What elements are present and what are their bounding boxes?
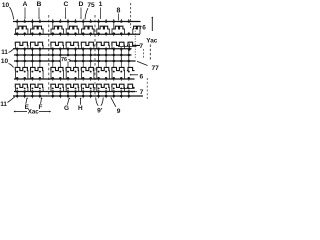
label A bbox=[23, 1, 28, 19]
label 9 bbox=[111, 97, 121, 115]
svg-text:7: 7 bbox=[140, 89, 144, 96]
dashed continuation right of 7 bbox=[143, 49, 145, 58]
core winding row 1 bbox=[15, 22, 140, 29]
svg-text:11: 11 bbox=[0, 101, 7, 108]
dashed continuation column 2 bbox=[94, 15, 96, 96]
svg-text:Yac: Yac bbox=[146, 38, 157, 45]
label 8 bbox=[117, 8, 121, 21]
label H bbox=[78, 98, 83, 113]
label 11 left bbox=[1, 49, 13, 56]
svg-text:7: 7 bbox=[139, 43, 143, 50]
svg-text:H: H bbox=[78, 105, 83, 112]
wire winding return line row 3 bbox=[14, 77, 135, 81]
wire bus line 11 bbox=[13, 47, 132, 50]
svg-text:F: F bbox=[38, 104, 42, 111]
label F bbox=[38, 97, 42, 111]
label Yac with span arrow bbox=[146, 17, 157, 61]
svg-text:11: 11 bbox=[1, 49, 8, 56]
core winding row 3 bbox=[15, 62, 135, 73]
core winding row 4 bbox=[15, 84, 135, 91]
wire right stub line bbox=[120, 87, 135, 89]
label 6 under bus1 end bbox=[140, 25, 147, 32]
svg-text:A: A bbox=[23, 1, 28, 8]
label 7 right bbox=[118, 43, 143, 50]
label 6 right bbox=[130, 73, 144, 80]
label Xac with span arrows bbox=[14, 109, 51, 116]
label 7 bottom-right bbox=[131, 89, 144, 96]
svg-text:76: 76 bbox=[61, 57, 67, 63]
svg-text:9': 9' bbox=[97, 107, 103, 114]
label 1 bbox=[99, 1, 103, 19]
svg-text:6: 6 bbox=[142, 25, 146, 32]
svg-text:D: D bbox=[79, 1, 84, 8]
wire element terminals row 3 bbox=[15, 71, 124, 79]
dashed continuation column 1 bbox=[48, 15, 50, 96]
label 76 inline bbox=[61, 56, 71, 63]
svg-text:G: G bbox=[64, 105, 69, 112]
label G bbox=[64, 98, 70, 113]
label 77 bbox=[137, 61, 159, 72]
svg-text:75: 75 bbox=[87, 2, 95, 9]
label 9-prime with bracket bbox=[96, 98, 104, 115]
label 10 left-mid bbox=[1, 58, 14, 68]
label 11 bottom-left bbox=[0, 97, 14, 108]
wire line 10-prime upper bbox=[14, 49, 132, 56]
svg-text:10: 10 bbox=[2, 2, 10, 9]
label C bbox=[64, 1, 69, 19]
svg-text:Xac: Xac bbox=[28, 109, 40, 116]
dashed continuation column 3 bbox=[130, 3, 132, 28]
core winding row 2 bbox=[15, 42, 140, 49]
label B bbox=[37, 1, 42, 19]
svg-text:6: 6 bbox=[139, 73, 143, 80]
dotted continuation mid-right bbox=[134, 28, 136, 58]
wire winding return line row 1 bbox=[14, 32, 140, 36]
label D bbox=[79, 1, 84, 19]
svg-text:10: 10 bbox=[1, 58, 9, 65]
svg-text:1: 1 bbox=[99, 1, 103, 8]
wire bus line 11 bottom bbox=[13, 92, 143, 99]
wire element terminals row 1 bbox=[15, 29, 140, 35]
dashed continuation right low bbox=[146, 78, 148, 99]
svg-text:77: 77 bbox=[152, 65, 160, 72]
label E bbox=[25, 97, 30, 111]
svg-text:B: B bbox=[37, 1, 42, 8]
svg-text:9: 9 bbox=[117, 108, 121, 115]
label 10 top-left bbox=[2, 2, 14, 20]
wire line 10-prime lower bbox=[14, 55, 136, 62]
label 75 bbox=[85, 2, 95, 20]
svg-text:C: C bbox=[64, 1, 69, 8]
wire bus line 10 (top X drive conductor) bbox=[13, 19, 141, 23]
wire line 11-prime bbox=[14, 90, 135, 93]
